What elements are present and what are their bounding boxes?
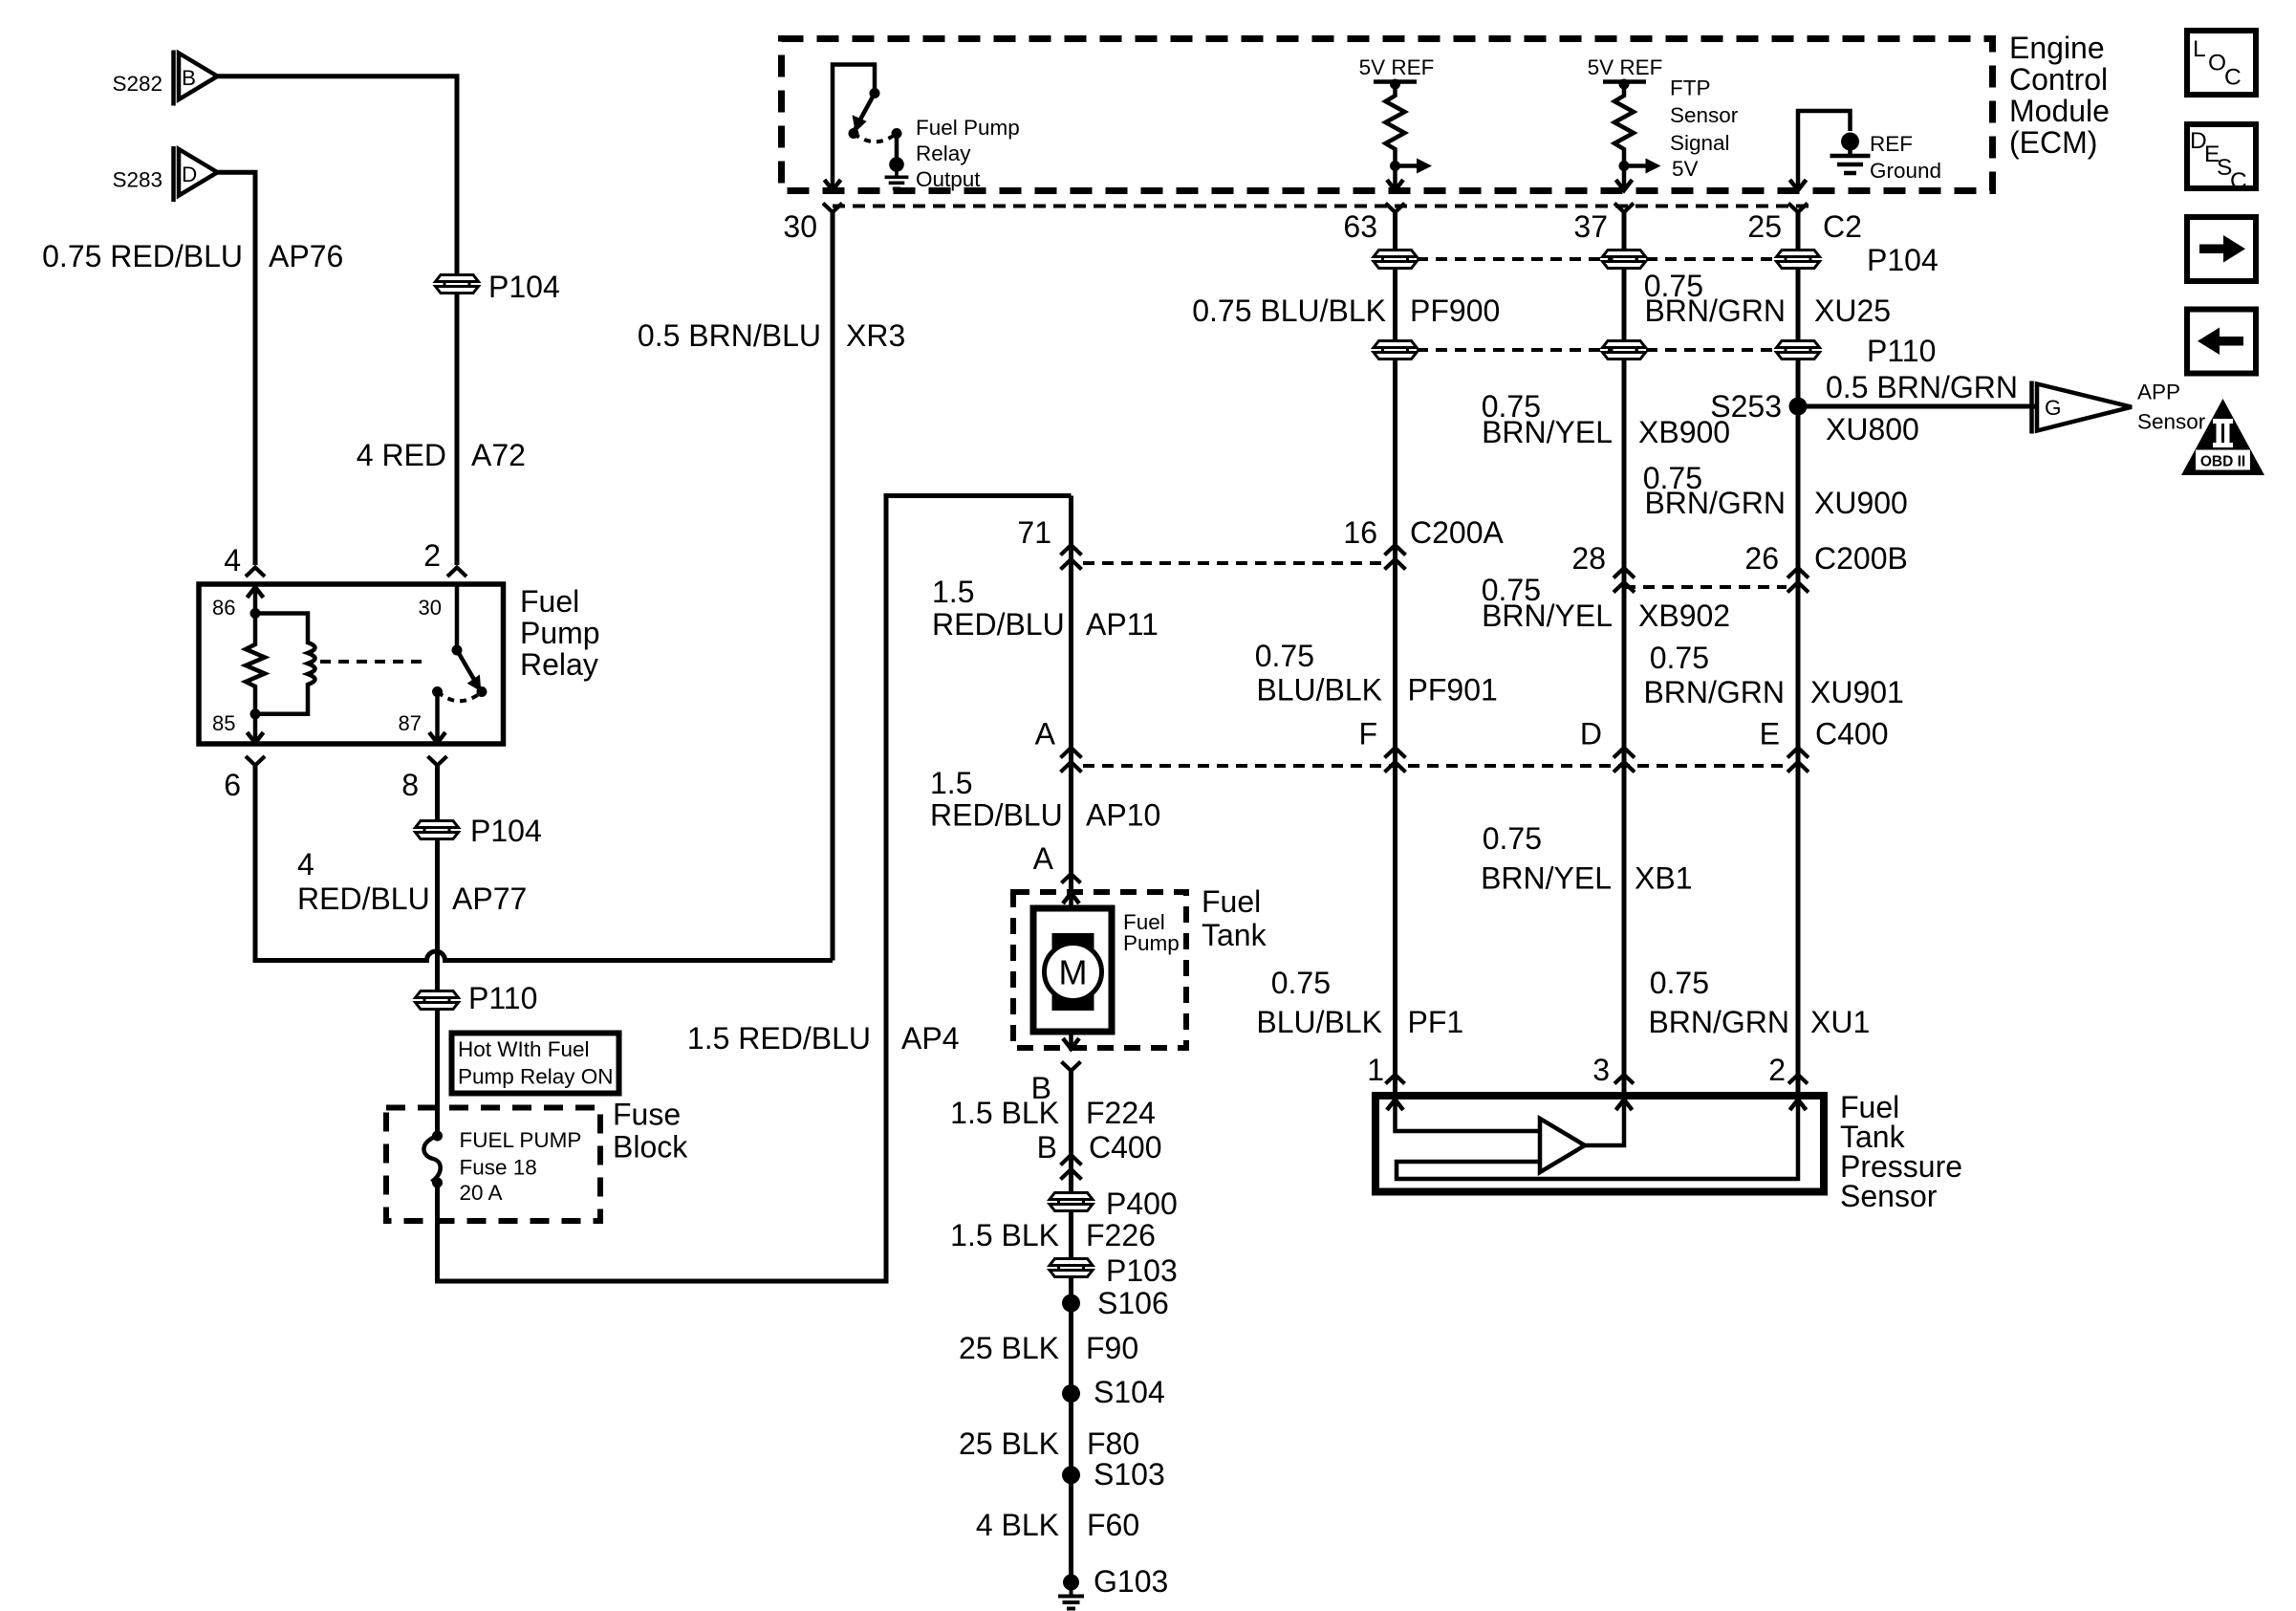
svg-text:6: 6 [224,768,241,802]
svg-text:RED/BLU: RED/BLU [932,607,1065,642]
svg-text:BRN/GRN: BRN/GRN [1648,1005,1789,1039]
wire pin25 down [1796,212,1801,1092]
svg-text:A72: A72 [471,438,526,472]
svg-text:G: G [2045,396,2062,420]
relay switch arm with arrow [457,650,481,691]
splice S103 [1062,1466,1080,1484]
pin 6 chevron [246,756,265,766]
C2 chevron pin25 [1788,204,1808,213]
wire through pump [1069,889,1073,1051]
svg-text:B: B [182,66,196,90]
svg-text:XR3: XR3 [846,318,905,353]
connector C400 pin F [1385,748,1406,773]
sensor internal lower input [1397,1099,1798,1179]
svg-text:1: 1 [1367,1053,1384,1087]
C2 chevron pin30 [823,204,842,213]
wire pin8 down to fuse [435,766,440,1137]
svg-text:1.5 RED/BLU: 1.5 RED/BLU [687,1021,871,1056]
ECM dashed box [782,39,1993,191]
svg-text:87: 87 [399,711,422,735]
svg-text:71: 71 [1017,515,1051,550]
svg-text:0.5 BRN/BLU: 0.5 BRN/BLU [638,318,821,353]
svg-text:(ECM): (ECM) [2009,125,2097,160]
svg-text:25: 25 [1747,209,1782,244]
svg-text:Relay: Relay [916,142,971,165]
relay dashed throw arc [438,692,483,702]
off-page connector S283 D [112,146,217,202]
wire A72 from S282 to relay pin 2 [218,76,458,565]
svg-text:25 BLK: 25 BLK [959,1426,1059,1461]
icon LOC [2187,31,2256,95]
svg-text:4: 4 [297,847,314,882]
svg-text:F226: F226 [1086,1218,1156,1252]
svg-text:C: C [2224,65,2242,91]
svg-text:Fuel Pump: Fuel Pump [916,116,1020,140]
pin 8 chevron [428,756,447,766]
svg-text:30: 30 [419,596,442,620]
connector P103 [1050,1259,1093,1277]
connector C200A pin16 [1385,545,1406,570]
svg-text:FTP: FTP [1670,76,1711,100]
fuel pump pin B chevron [1062,1062,1081,1072]
svg-text:B: B [1037,1130,1057,1165]
fuel tank dashed box [1013,892,1186,1048]
svg-text:AP11: AP11 [1086,607,1159,642]
svg-text:5V REF: 5V REF [1588,55,1663,79]
svg-text:XU25: XU25 [1814,294,1891,328]
wire AP76 from S283 to relay pin 4 [218,172,256,565]
connector P104 on AP77 [416,821,459,839]
relay coil [255,614,315,714]
svg-text:S106: S106 [1097,1286,1169,1320]
svg-text:XU901: XU901 [1810,675,1904,709]
5V REF pullup 1 [1359,55,1435,190]
svg-text:E: E [1760,717,1780,751]
svg-text:RED/BLU: RED/BLU [297,882,430,916]
svg-text:Signal: Signal [1670,131,1730,155]
svg-text:P110: P110 [468,981,537,1015]
connector P104 on XU25 [1777,250,1820,269]
svg-text:Relay: Relay [520,647,598,682]
svg-text:Fuse: Fuse [613,1098,681,1132]
svg-text:BRN/GRN: BRN/GRN [1643,675,1785,709]
connector C400 pin E [1787,748,1809,773]
connector P110 on XB900 [1603,341,1646,359]
svg-text:C200A: C200A [1410,515,1505,550]
svg-text:XB1: XB1 [1635,861,1692,896]
C2 chevron pin63 [1386,204,1405,213]
svg-text:Tank: Tank [1202,918,1267,952]
svg-text:F80: F80 [1087,1426,1139,1461]
svg-text:2: 2 [423,538,441,573]
svg-text:Fuel: Fuel [520,584,579,619]
ECM pin30 exit arrow [825,180,841,190]
wire XU800 branch [1798,404,2035,409]
svg-text:D: D [182,163,197,186]
svg-text:L: L [2193,36,2206,62]
svg-text:APP: APP [2137,381,2180,404]
icon OBD II triangle [2181,399,2264,475]
svg-text:1.5 BLK: 1.5 BLK [950,1218,1059,1252]
svg-text:AP77: AP77 [452,882,527,916]
connector P110 on PF900 [1374,341,1417,359]
svg-text:P104: P104 [470,814,542,848]
ECM switch pivot node [870,88,880,98]
svg-text:REF: REF [1870,132,1913,156]
svg-text:XU800: XU800 [1826,412,1919,446]
svg-text:A: A [1035,717,1056,751]
relay pin 87 arrow [399,692,445,744]
svg-text:PF900: PF900 [1410,294,1500,328]
svg-text:85: 85 [212,711,235,735]
svg-text:P104: P104 [1867,243,1939,277]
splice S106 [1062,1295,1080,1313]
ECM switch contact node [892,128,902,139]
svg-text:P103: P103 [1106,1253,1178,1288]
relay switch pivot node [452,645,463,656]
wire pin6 down and right to XR3 [255,766,833,961]
svg-text:BLU/BLK: BLU/BLK [1256,673,1382,708]
svg-text:C200B: C200B [1814,541,1908,576]
wire AP11 down to tank [1069,496,1073,890]
sensor internal output to pin3 [1585,1099,1633,1145]
fuse block dashed box [386,1108,600,1222]
connector C200A pin71 [1061,545,1082,570]
relay resistor [246,614,265,714]
hot with fuel pump relay on box [452,1034,619,1094]
icon arrow left [2187,310,2256,374]
svg-text:30: 30 [783,209,817,244]
svg-text:20 A: 20 A [460,1181,503,1205]
ECM relay output ground [885,134,909,189]
pin 2 chevron [447,568,466,577]
svg-text:Module: Module [2009,94,2110,128]
svg-text:C400: C400 [1815,717,1889,751]
svg-text:Hot WIth Fuel: Hot WIth Fuel [458,1037,590,1061]
svg-text:S283: S283 [112,168,162,192]
connector C400 pin A [1061,748,1082,773]
svg-text:0.75 RED/BLU: 0.75 RED/BLU [42,239,243,273]
svg-text:BRN/YEL: BRN/YEL [1482,415,1613,449]
ground G103 [1058,1575,1084,1609]
svg-text:AP10: AP10 [1086,798,1160,833]
svg-text:G103: G103 [1094,1564,1168,1599]
relay pin 86 arrow [212,587,264,620]
relay coil top node [250,608,261,619]
wire AP4 from fuse to pin 71 [438,496,1072,1282]
relay switch arm end node [477,686,487,697]
svg-text:S282: S282 [112,72,162,96]
svg-text:0.75: 0.75 [1271,966,1331,1000]
connector P104 on PF900 [1374,250,1417,269]
connector P104 on A72 [436,275,479,294]
ECM switch arm with arrow [853,94,876,133]
svg-text:XU1: XU1 [1810,1005,1870,1039]
fuel pump motor M1 [1033,908,1180,1032]
C400 dashed line [1083,764,1787,768]
connector P110 on XU25 [1777,341,1820,359]
svg-text:37: 37 [1573,209,1608,244]
relay coil bottom node [250,708,261,719]
svg-text:FUEL PUMP: FUEL PUMP [460,1128,582,1152]
svg-text:0.5 BRN/GRN: 0.5 BRN/GRN [1826,370,2018,404]
svg-text:26: 26 [1744,541,1779,576]
svg-text:Ground: Ground [1870,159,1941,183]
svg-text:F90: F90 [1086,1331,1138,1365]
wire XR3 pin30 down [831,212,835,961]
connector C400 pin D [1614,748,1635,773]
svg-text:Fuel: Fuel [1202,884,1261,919]
wire F224 down [1069,1071,1073,1576]
svg-text:BLU/BLK: BLU/BLK [1256,1005,1382,1039]
svg-text:P400: P400 [1106,1186,1178,1221]
sensor internal pin1 arrow [1387,1099,1540,1131]
svg-text:A: A [1033,841,1054,876]
svg-text:F60: F60 [1087,1508,1139,1542]
svg-text:P110: P110 [1867,334,1936,368]
svg-text:16: 16 [1343,515,1377,550]
svg-text:0.75: 0.75 [1255,639,1314,673]
svg-text:Pump: Pump [1123,931,1180,955]
svg-text:Block: Block [613,1130,688,1165]
svg-text:0.75: 0.75 [1650,641,1709,675]
connector C200B pin28 [1614,568,1635,593]
svg-text:8: 8 [401,768,419,802]
sensor internal pin2 arrow [1790,1099,1807,1110]
svg-text:5V REF: 5V REF [1359,55,1435,79]
svg-text:S253: S253 [1710,389,1782,424]
fuel tank pressure sensor box [1375,1096,1824,1192]
svg-text:5V: 5V [1672,157,1699,181]
connector P400 [1050,1193,1093,1211]
svg-text:BRN/YEL: BRN/YEL [1482,599,1613,633]
ECM switch dashed throw arc [854,134,897,142]
svg-text:86: 86 [212,596,235,620]
fuse F18 [423,1128,581,1205]
sensor op-amp U1 [1540,1119,1585,1172]
svg-text:Sensor: Sensor [1840,1179,1938,1213]
svg-text:F: F [1358,717,1377,751]
wire pin63 down [1393,212,1397,1092]
arrow out of tank bottom [1063,1038,1079,1049]
svg-text:Pump: Pump [520,616,600,650]
svg-text:0.75: 0.75 [1650,966,1709,1000]
connector P104 on XB900 [1603,250,1646,269]
icon DESC [2187,124,2256,194]
svg-text:BRN/YEL: BRN/YEL [1481,861,1612,896]
svg-text:Pump Relay ON: Pump Relay ON [458,1065,614,1089]
svg-text:63: 63 [1343,209,1377,244]
svg-text:Fuse 18: Fuse 18 [460,1156,537,1180]
svg-text:4 RED: 4 RED [357,438,446,472]
5V REF pullup 2 [1588,55,1739,190]
svg-text:P104: P104 [488,270,560,304]
svg-text:Output: Output [916,167,981,191]
svg-text:AP4: AP4 [901,1021,959,1056]
svg-text:BRN/GRN: BRN/GRN [1644,294,1786,328]
off-page connector S282 B [112,51,217,106]
splice S104 [1062,1384,1080,1403]
splice S253 [1789,398,1808,416]
C200B dashed line [1624,585,1787,589]
svg-text:Sensor: Sensor [2137,410,2206,434]
connector C200B pin26 [1787,568,1809,593]
svg-text:RED/BLU: RED/BLU [930,798,1063,833]
svg-text:C400: C400 [1089,1130,1162,1165]
icon arrow right [2187,217,2256,281]
svg-text:0.75: 0.75 [1483,821,1542,856]
svg-text:4: 4 [224,543,241,577]
C2 connector dashed line [833,205,1812,208]
C200A dashed line [1083,561,1384,565]
connector P110 on AP77 [416,991,459,1010]
svg-text:XU900: XU900 [1814,486,1908,520]
svg-text:0.75 BLU/BLK: 0.75 BLU/BLK [1192,294,1386,328]
svg-text:AP76: AP76 [269,239,343,273]
svg-text:OBD II: OBD II [2200,454,2245,470]
svg-text:XB902: XB902 [1638,599,1730,633]
svg-text:C: C [2230,168,2247,194]
ECM internal switch wire [833,65,875,191]
svg-text:Sensor: Sensor [1670,103,1739,127]
relay dashed actuation link [320,660,427,664]
relay contact 87 node [432,686,443,697]
ECM switch arm end node [849,128,859,139]
svg-text:S103: S103 [1094,1457,1165,1491]
svg-text:4 BLK: 4 BLK [976,1508,1059,1542]
svg-text:1.5 BLK: 1.5 BLK [950,1096,1059,1130]
svg-text:BRN/GRN: BRN/GRN [1644,486,1786,520]
svg-text:3: 3 [1592,1053,1610,1087]
svg-text:25 BLK: 25 BLK [959,1331,1059,1365]
svg-text:C2: C2 [1823,209,1862,244]
wire pin37 down [1622,212,1627,1092]
svg-text:28: 28 [1571,541,1606,576]
C2 chevron pin37 [1614,204,1634,213]
relay K: fuel pump relay box [199,584,504,744]
off-page connector G APP sensor [2032,381,2206,434]
P104 dashed line [1417,257,1776,261]
svg-text:PF901: PF901 [1408,673,1498,708]
svg-text:M: M [1059,953,1088,992]
P110 dashed line [1417,348,1776,352]
svg-text:S104: S104 [1094,1375,1165,1409]
svg-text:1.5: 1.5 [932,575,974,609]
relay pin 85 arrow [212,711,264,743]
pin 4 chevron [246,568,265,577]
REF ground in ECM [1790,111,1942,190]
svg-text:Engine: Engine [2009,31,2105,65]
svg-text:F224: F224 [1086,1096,1156,1130]
svg-text:Control: Control [2009,62,2108,97]
relay switch pin 30 [419,584,457,650]
arrow into tank top [1063,893,1079,903]
svg-text:D: D [1580,717,1602,751]
svg-text:2: 2 [1768,1053,1786,1087]
svg-text:PF1: PF1 [1408,1005,1464,1039]
svg-text:1.5: 1.5 [930,766,972,800]
